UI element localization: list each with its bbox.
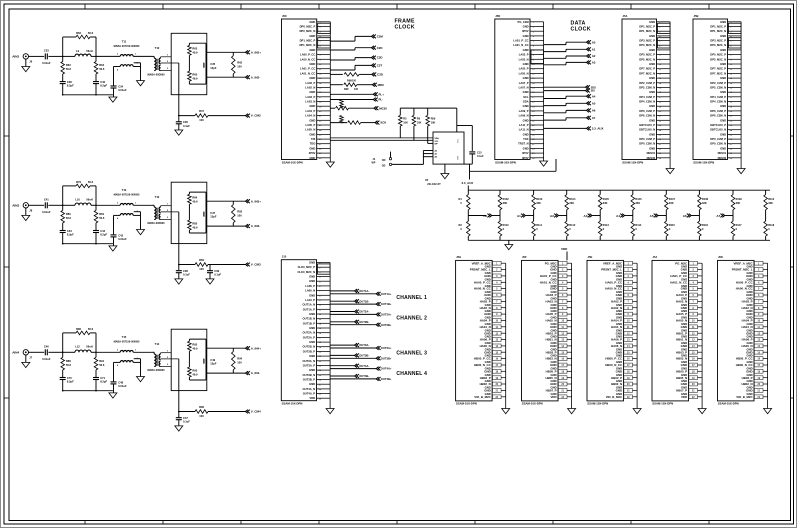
svg-text:SSAM-10X-DPN: SSAM-10X-DPN	[652, 402, 673, 406]
svg-text:R62: R62	[76, 31, 81, 35]
svg-text:A0: A0	[483, 214, 487, 218]
svg-text:4: 4	[117, 217, 119, 220]
svg-text:DP4_C2M_P: DP4_C2M_P	[639, 95, 655, 99]
svg-text:8.2pF: 8.2pF	[67, 380, 74, 384]
svg-text:GND: GND	[720, 132, 726, 136]
svg-text:J5B: J5B	[694, 14, 699, 18]
svg-text:HA01_P_CC: HA01_P_CC	[670, 274, 688, 278]
svg-text:C70: C70	[67, 376, 72, 380]
svg-text:3.3_AUX: 3.3_AUX	[462, 181, 474, 185]
svg-text:HA02_N: HA02_N	[480, 306, 491, 310]
svg-text:VREF_A_M2C: VREF_A_M2C	[603, 261, 623, 265]
svg-text:GND: GND	[309, 275, 315, 279]
svg-text:GND: GND	[649, 104, 655, 108]
svg-text:L9: L9	[76, 49, 80, 53]
svg-text:8: 8	[319, 295, 321, 297]
svg-text:28: 28	[532, 149, 535, 151]
svg-text:MDC: MDC	[378, 83, 385, 87]
svg-text:33K: 33K	[768, 201, 773, 205]
svg-text:RES01: RES01	[647, 151, 656, 155]
svg-text:A2: A2	[550, 214, 554, 218]
svg-text:HB00_P_CC: HB00_P_CC	[736, 357, 754, 361]
svg-text:DP7_M2C_P: DP7_M2C_P	[639, 67, 655, 71]
svg-text:C42: C42	[118, 233, 123, 237]
svg-text:C39: C39	[214, 269, 219, 273]
svg-text:GND: GND	[616, 293, 622, 297]
svg-text:GND: GND	[484, 350, 490, 354]
svg-text:13: 13	[730, 78, 733, 80]
svg-text:GND: GND	[523, 132, 529, 136]
svg-text:10: 10	[319, 305, 322, 307]
svg-text:11: 11	[730, 69, 733, 71]
svg-text:A2: A2	[435, 150, 438, 153]
svg-text:18: 18	[532, 102, 535, 104]
svg-text:SSAM-10X-DPN: SSAM-10X-DPN	[622, 160, 643, 164]
svg-text:R2: R2	[459, 223, 463, 227]
svg-text:GND: GND	[616, 274, 622, 278]
svg-text:SSAM-10X-DPN: SSAM-10X-DPN	[495, 160, 516, 164]
svg-text:WP: WP	[372, 162, 376, 165]
svg-text:C44: C44	[100, 229, 105, 233]
svg-text:HB05_N: HB05_N	[676, 376, 687, 380]
svg-text:GND: GND	[746, 369, 752, 373]
svg-text:HA06_N: HA06_N	[611, 344, 622, 348]
svg-text:GND: GND	[309, 48, 315, 52]
svg-text:CLK0_M2C_P: CLK0_M2C_P	[298, 265, 316, 269]
svg-text:56.6: 56.6	[99, 216, 105, 220]
svg-text:GND: GND	[484, 312, 490, 316]
svg-text:RES00: RES00	[647, 156, 656, 160]
svg-text:HB02_N: HB02_N	[480, 382, 491, 386]
svg-text:GND: GND	[523, 104, 529, 108]
svg-text:A4: A4	[616, 214, 620, 218]
svg-text:R106: R106	[635, 197, 642, 201]
svg-text:7: 7	[319, 291, 321, 293]
svg-text:T13: T13	[122, 188, 127, 192]
svg-text:HB02_P: HB02_P	[611, 376, 622, 380]
svg-text:PG_M2C: PG_M2C	[675, 261, 688, 265]
svg-text:HB03_P: HB03_P	[676, 350, 687, 354]
svg-text:OUT3B_P: OUT3B_P	[303, 378, 316, 382]
svg-text:GND: GND	[649, 76, 655, 80]
svg-text:GND: GND	[309, 104, 315, 108]
svg-text:LA09_P: LA09_P	[519, 109, 529, 113]
svg-text:3.3_AUX: 3.3_AUX	[592, 127, 604, 131]
svg-text:V_CM4: V_CM4	[251, 410, 261, 414]
svg-text:5: 5	[659, 41, 661, 43]
svg-text:17: 17	[532, 97, 535, 99]
svg-text:VREF_A_M2C: VREF_A_M2C	[733, 261, 753, 265]
svg-text:SDA: SDA	[523, 100, 529, 104]
svg-text:15: 15	[532, 88, 535, 90]
svg-text:13pF: 13pF	[210, 362, 217, 366]
svg-text:C3T: C3T	[377, 64, 383, 68]
svg-text:A0: A0	[592, 40, 596, 44]
svg-text:14: 14	[319, 322, 322, 325]
svg-text:33K: 33K	[669, 201, 674, 205]
svg-text:PG_M2C: PG_M2C	[545, 261, 558, 265]
svg-text:J5H: J5H	[456, 255, 461, 259]
svg-text:LA06_P: LA06_P	[305, 284, 315, 288]
svg-text:3P3V: 3P3V	[522, 29, 529, 33]
svg-text:DP0_C2M_P: DP0_C2M_P	[639, 137, 655, 141]
svg-text:R1: R1	[459, 197, 463, 201]
svg-text:CHANNEL 3: CHANNEL 3	[396, 351, 427, 357]
svg-text:GND: GND	[309, 132, 315, 136]
svg-text:J8: J8	[29, 209, 32, 213]
svg-text:25: 25	[319, 375, 322, 377]
svg-text:15: 15	[319, 328, 322, 330]
svg-text:DP1_M2C_N: DP1_M2C_N	[710, 29, 726, 33]
svg-text:HB07_P: HB07_P	[676, 389, 687, 393]
svg-text:HA05_P: HA05_P	[546, 312, 557, 316]
svg-text:LA04_N: LA04_N	[305, 114, 315, 118]
svg-text:LA09_N: LA09_N	[519, 114, 529, 118]
svg-text:GND: GND	[309, 156, 315, 160]
svg-text:LA03_N: LA03_N	[305, 100, 315, 104]
svg-text:20: 20	[730, 111, 733, 113]
svg-text:A_IN2+: A_IN2+	[251, 50, 262, 54]
svg-text:29: 29	[730, 153, 733, 155]
svg-text:C38: C38	[67, 80, 72, 84]
svg-text:GND: GND	[720, 34, 726, 38]
svg-text:6: 6	[319, 286, 321, 288]
svg-text:1: 1	[135, 54, 137, 56]
svg-text:10: 10	[532, 64, 535, 66]
svg-text:LA05_P: LA05_P	[519, 67, 529, 71]
svg-text:100: 100	[237, 213, 242, 217]
svg-text:J5K: J5K	[718, 255, 723, 259]
svg-text:MC30: MC30	[379, 106, 387, 110]
svg-text:LA07_N: LA07_N	[519, 86, 529, 90]
svg-text:C47: C47	[183, 416, 188, 420]
svg-text:2: 2	[319, 27, 321, 29]
svg-text:DATA: DATA	[571, 21, 586, 27]
svg-text:6: 6	[319, 45, 321, 47]
svg-text:21: 21	[319, 116, 322, 118]
svg-text:A1: A1	[517, 214, 521, 218]
svg-text:J7: J7	[29, 356, 32, 360]
svg-text:5: 5	[533, 41, 535, 43]
svg-text:R96: R96	[199, 405, 204, 409]
svg-text:27: 27	[532, 144, 535, 146]
svg-text:12: 12	[659, 74, 662, 76]
svg-text:HB05_P: HB05_P	[676, 369, 687, 373]
svg-text:OUT4A_P: OUT4A_P	[303, 392, 316, 396]
svg-text:OUT3A+: OUT3A+	[381, 346, 392, 350]
svg-text:HA02_N: HA02_N	[742, 306, 753, 310]
svg-text:15: 15	[659, 88, 662, 90]
svg-text:29: 29	[532, 153, 535, 155]
svg-text:27: 27	[659, 144, 662, 146]
svg-text:C15: C15	[477, 151, 482, 154]
svg-text:GND: GND	[681, 382, 687, 386]
svg-text:SSAM-10X-DPN: SSAM-10X-DPN	[522, 402, 543, 406]
svg-text:4: 4	[117, 364, 119, 367]
svg-text:GND: GND	[649, 132, 655, 136]
svg-text:100: 100	[237, 360, 242, 364]
svg-text:17: 17	[730, 97, 733, 99]
svg-text:A6: A6	[683, 214, 687, 218]
svg-text:GND: GND	[523, 34, 529, 38]
svg-text:U5: U5	[425, 178, 429, 182]
svg-text:GND: GND	[484, 369, 490, 373]
svg-text:R116: R116	[702, 223, 709, 227]
svg-text:C35: C35	[210, 62, 215, 66]
svg-text:HB05_N: HB05_N	[546, 376, 557, 380]
svg-text:A_IN3-: A_IN3-	[251, 224, 261, 228]
svg-text:24: 24	[730, 129, 733, 132]
svg-text:10: 10	[730, 64, 733, 66]
svg-text:3: 3	[167, 68, 169, 70]
svg-text:8: 8	[659, 55, 661, 57]
svg-text:1: 1	[167, 351, 169, 353]
svg-text:LA01_N_CC: LA01_N_CC	[300, 71, 315, 75]
svg-text:VCC: VCC	[458, 138, 460, 143]
svg-text:R79: R79	[76, 180, 81, 184]
svg-text:R92: R92	[192, 343, 197, 347]
svg-text:LA11_P: LA11_P	[519, 123, 529, 127]
svg-text:9: 9	[730, 59, 732, 61]
svg-text:GND: GND	[649, 62, 655, 66]
svg-text:RES00: RES00	[718, 156, 727, 160]
svg-text:MABA-00D060: MABA-00D060	[147, 369, 165, 372]
svg-text:DP0_C2M_N: DP0_C2M_N	[639, 142, 655, 146]
svg-text:OUT2A_P: OUT2A_P	[303, 335, 316, 339]
svg-text:HA06_N: HA06_N	[742, 344, 753, 348]
svg-text:GND: GND	[746, 389, 752, 393]
svg-text:OUT2A-: OUT2A-	[359, 310, 369, 314]
svg-text:R112: R112	[569, 223, 576, 227]
svg-text:18: 18	[730, 102, 733, 104]
svg-text:23: 23	[532, 125, 535, 127]
svg-text:HA04_P: HA04_P	[480, 319, 491, 323]
svg-text:56.6: 56.6	[66, 67, 72, 71]
svg-text:8.2pF: 8.2pF	[100, 380, 107, 384]
svg-text:VDD: VDD	[681, 395, 687, 399]
svg-text:A_IN3+: A_IN3+	[251, 199, 262, 203]
svg-text:19: 19	[659, 106, 662, 108]
svg-text:OUT1B_N: OUT1B_N	[303, 317, 316, 321]
svg-text:R86: R86	[76, 327, 81, 331]
svg-text:20: 20	[532, 111, 535, 113]
svg-text:A5: A5	[592, 101, 596, 105]
svg-text:R6: R6	[417, 117, 421, 120]
svg-text:GND: GND	[649, 118, 655, 122]
svg-text:OUT1B+: OUT1B+	[381, 302, 392, 306]
svg-text:DP5_M2C_N: DP5_M2C_N	[710, 57, 726, 61]
svg-text:TRST_N: TRST_N	[518, 142, 529, 146]
svg-text:30: 30	[730, 158, 733, 160]
svg-text:SSAM-10X-DPN: SSAM-10X-DPN	[282, 402, 303, 406]
svg-text:T15: T15	[122, 335, 127, 339]
svg-text:21: 21	[319, 356, 322, 358]
svg-text:R118: R118	[768, 223, 775, 227]
svg-text:3P3V: 3P3V	[309, 151, 316, 155]
svg-text:A0: A0	[435, 156, 438, 159]
svg-text:HA01_P_CC: HA01_P_CC	[540, 274, 558, 278]
svg-text:HB01_N: HB01_N	[676, 338, 687, 342]
svg-text:A1: A1	[592, 47, 596, 51]
svg-text:HB05_P: HB05_P	[546, 369, 557, 373]
svg-text:4: 4	[533, 35, 535, 38]
svg-text:21: 21	[532, 116, 535, 118]
svg-text:DP2_C2M_P: DP2_C2M_P	[639, 81, 655, 85]
svg-text:OUT1A_N: OUT1A_N	[303, 303, 316, 307]
svg-text:0.01uF: 0.01uF	[118, 384, 127, 388]
svg-text:49.9: 49.9	[192, 199, 198, 203]
svg-text:3: 3	[730, 31, 732, 33]
svg-text:A2: A2	[592, 54, 596, 58]
svg-text:5: 5	[319, 41, 321, 43]
svg-text:DP0_C2M_P: DP0_C2M_P	[710, 137, 726, 141]
svg-text:J10: J10	[282, 255, 287, 259]
svg-text:OUT4B+: OUT4B+	[381, 377, 392, 381]
svg-text:OUT4A-: OUT4A-	[359, 364, 369, 368]
svg-text:MABA-007159-000000: MABA-007159-000000	[114, 45, 140, 48]
svg-text:7: 7	[659, 50, 661, 52]
svg-text:C3D: C3D	[377, 56, 383, 60]
svg-text:DP4_C2M_P: DP4_C2M_P	[710, 95, 726, 99]
svg-text:T10: T10	[155, 46, 160, 50]
svg-text:R102: R102	[503, 197, 510, 201]
svg-text:30: 30	[532, 158, 535, 160]
svg-text:0.1uF: 0.1uF	[214, 273, 221, 277]
svg-text:C2D: C2D	[377, 46, 383, 50]
svg-text:22: 22	[532, 120, 535, 122]
svg-text:0: 0	[503, 227, 505, 231]
svg-text:J6: J6	[29, 60, 32, 64]
svg-text:0.1uF: 0.1uF	[183, 273, 190, 277]
svg-text:12: 12	[319, 74, 322, 76]
svg-text:19: 19	[319, 106, 322, 108]
svg-text:HA04_N: HA04_N	[480, 325, 491, 329]
svg-text:10: 10	[659, 64, 662, 66]
svg-text:GND: GND	[681, 287, 687, 291]
svg-text:56nH: 56nH	[86, 345, 93, 349]
svg-text:DP1_M2C_P: DP1_M2C_P	[639, 25, 655, 29]
svg-text:GND: GND	[309, 20, 315, 24]
svg-text:0.01uF: 0.01uF	[118, 88, 127, 92]
svg-text:GND: GND	[523, 25, 529, 29]
svg-text:GND: GND	[484, 274, 490, 278]
svg-text:C49: C49	[210, 358, 215, 362]
svg-text:HA04_N: HA04_N	[611, 325, 622, 329]
svg-text:30: 30	[659, 158, 662, 160]
svg-text:MABA-00D060: MABA-00D060	[147, 222, 165, 225]
svg-text:VSS: VSS	[458, 155, 460, 160]
svg-text:24LC32-XT: 24LC32-XT	[427, 182, 441, 186]
svg-text:14: 14	[319, 82, 322, 85]
svg-text:1: 1	[167, 55, 169, 57]
svg-text:33K: 33K	[635, 201, 640, 205]
svg-text:15: 15	[319, 88, 322, 90]
svg-text:56.6: 56.6	[99, 67, 105, 71]
svg-text:C43: C43	[67, 229, 72, 233]
svg-text:27: 27	[319, 384, 322, 386]
svg-text:11: 11	[319, 69, 322, 71]
svg-text:0.01uF: 0.01uF	[42, 61, 51, 65]
svg-text:18: 18	[319, 342, 322, 344]
svg-text:27: 27	[319, 144, 322, 146]
svg-text:HA00_P_CC: HA00_P_CC	[736, 280, 754, 284]
svg-text:100: 100	[354, 88, 359, 91]
svg-text:RES01: RES01	[718, 151, 727, 155]
svg-text:R62: R62	[237, 60, 242, 64]
svg-text:SSAM-10X-DPN: SSAM-10X-DPN	[718, 402, 739, 406]
svg-text:23: 23	[659, 125, 662, 127]
svg-text:GND: GND	[720, 20, 726, 24]
svg-text:0: 0	[635, 227, 637, 231]
svg-text:56.6: 56.6	[88, 327, 94, 331]
svg-text:GBTCLK0_P: GBTCLK0_P	[639, 123, 655, 127]
svg-text:49.9: 49.9	[192, 225, 198, 229]
svg-text:HB02_N: HB02_N	[611, 382, 622, 386]
svg-text:11: 11	[532, 69, 535, 71]
svg-text:16: 16	[319, 333, 322, 335]
svg-text:XCK: XCK	[380, 121, 387, 125]
svg-text:DP6_C2M_N: DP6_C2M_N	[639, 114, 655, 118]
svg-text:L12: L12	[75, 345, 80, 349]
svg-text:VDD: VDD	[550, 395, 556, 399]
svg-text:A_IN4-: A_IN4-	[251, 371, 261, 375]
svg-text:C41: C41	[44, 198, 49, 202]
svg-text:LA06_N: LA06_N	[305, 289, 315, 293]
svg-text:HA03_P: HA03_P	[676, 293, 687, 297]
svg-text:OUT2B_P: OUT2B_P	[303, 349, 316, 353]
svg-text:A3: A3	[592, 61, 596, 65]
svg-text:R114: R114	[635, 223, 642, 227]
svg-text:SCL: SCL	[523, 95, 529, 99]
svg-text:GND: GND	[746, 350, 752, 354]
svg-text:13pF: 13pF	[210, 215, 217, 219]
svg-text:J5C: J5C	[282, 14, 287, 18]
svg-text:OUT1B-: OUT1B-	[359, 299, 369, 303]
svg-text:HB00_P_CC: HB00_P_CC	[474, 357, 492, 361]
svg-text:19: 19	[730, 106, 733, 108]
svg-text:DP6_C2M_P: DP6_C2M_P	[710, 109, 726, 113]
svg-text:GND: GND	[616, 369, 622, 373]
svg-text:GND: GND	[484, 389, 490, 393]
svg-text:HB00_P_CC: HB00_P_CC	[605, 357, 623, 361]
svg-text:T14: T14	[155, 342, 160, 346]
svg-text:HA00_N_CC: HA00_N_CC	[736, 287, 754, 291]
svg-text:R65: R65	[192, 73, 197, 77]
svg-text:GND: GND	[309, 76, 315, 80]
svg-text:DP1_M2C_P: DP1_M2C_P	[300, 39, 316, 43]
svg-text:PL+: PL+	[379, 92, 385, 96]
svg-text:SSAM-10X-DPN: SSAM-10X-DPN	[693, 160, 714, 164]
svg-text:R83: R83	[237, 209, 242, 213]
svg-text:HB03_N: HB03_N	[676, 357, 687, 361]
svg-text:GND: GND	[523, 146, 529, 150]
svg-text:GND: GND	[309, 62, 315, 66]
svg-text:1: 1	[135, 203, 137, 205]
svg-text:DP5_M2C_P: DP5_M2C_P	[639, 53, 655, 57]
svg-text:12: 12	[730, 74, 733, 76]
svg-text:24: 24	[532, 129, 535, 132]
svg-text:LA11_N: LA11_N	[519, 128, 529, 132]
svg-text:3: 3	[533, 31, 535, 33]
svg-text:OUT4A+: OUT4A+	[381, 367, 392, 371]
svg-text:DP7_M2C_N: DP7_M2C_N	[710, 71, 726, 75]
svg-text:0: 0	[669, 227, 671, 231]
svg-text:GND: GND	[550, 287, 556, 291]
svg-text:C3D: C3D	[377, 73, 383, 77]
svg-text:HA06_P: HA06_P	[742, 338, 753, 342]
svg-text:LA02_P: LA02_P	[305, 81, 315, 85]
svg-text:14: 14	[730, 82, 733, 85]
